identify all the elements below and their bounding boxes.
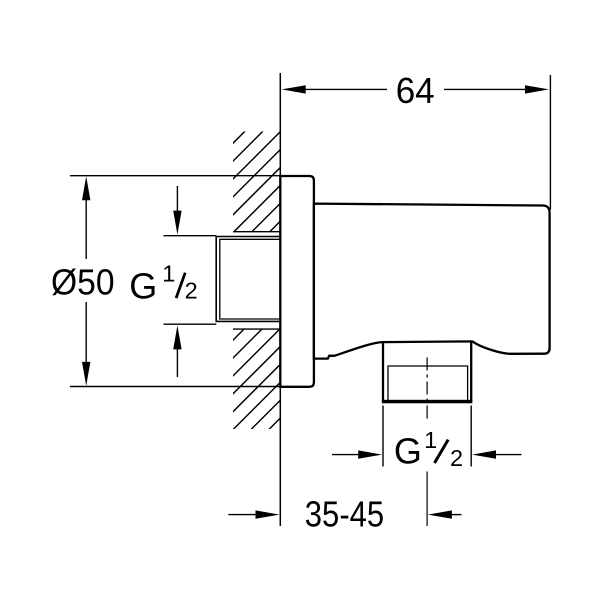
dim 64: left arrowhead xyxy=(282,85,306,93)
inlet thread G1/2: upper arrowhead (down) xyxy=(173,211,181,235)
wall hole bottom edge xyxy=(233,328,280,330)
outlet thread G1/2: right arrowhead (left) xyxy=(472,450,496,458)
inlet thread union inner (thread root) lines xyxy=(220,239,280,319)
inlet thread G1/2: upper extension stub xyxy=(164,235,217,237)
dim 64: right arrowhead xyxy=(525,85,549,93)
outlet thread G1/2: right extension line xyxy=(470,406,472,467)
svg-text:1: 1 xyxy=(424,427,437,453)
svg-text:Ø50: Ø50 xyxy=(51,262,115,303)
inlet thread G1/2: lower extension stub xyxy=(164,323,217,325)
outlet thread G1/2: left dim line xyxy=(332,454,360,456)
outlet thread G1/2: fraction slash xyxy=(435,440,449,463)
outlet nipple bottom bar xyxy=(382,400,473,404)
dim Ø50: top arrowhead xyxy=(82,176,90,200)
inlet thread G1/2: fraction slash xyxy=(176,273,185,298)
svg-text:2: 2 xyxy=(450,445,463,471)
svg-text:35-45: 35-45 xyxy=(305,494,384,535)
centerline extension to 35-45 dim xyxy=(426,472,428,527)
outlet centerline (dash-dot) xyxy=(426,358,428,423)
svg-text:G: G xyxy=(129,265,157,306)
dim Ø50: dimension line xyxy=(85,199,87,363)
svg-text:1: 1 xyxy=(162,260,175,286)
dim Ø50: bottom arrowhead xyxy=(82,362,90,386)
dim 35-45: left arrowhead (right) xyxy=(256,510,280,518)
svg-text:64: 64 xyxy=(396,70,435,111)
outlet nipple left edge xyxy=(382,342,384,401)
dim 35-45: right dim line xyxy=(450,514,462,516)
wall hatching xyxy=(139,127,375,435)
dim Ø50: top extension line xyxy=(70,175,280,177)
svg-text:2: 2 xyxy=(185,278,198,304)
outlet thread G1/2: right dim line xyxy=(494,454,522,456)
dim 64: dimension line xyxy=(304,88,526,90)
dim Ø50: bottom extension line xyxy=(70,386,280,388)
wall surface line xyxy=(279,73,281,526)
svg-text:G: G xyxy=(394,431,422,472)
outlet thread inner lines xyxy=(388,366,468,400)
rosette (wall flange) xyxy=(280,176,314,387)
inlet thread G1/2: upper pointer line xyxy=(176,186,178,213)
dim 35-45: left dim line xyxy=(228,514,257,516)
outlet thread G1/2: left extension line xyxy=(382,406,384,467)
outlet nipple right edge xyxy=(470,341,472,401)
body outline xyxy=(314,204,550,359)
inlet thread G1/2: lower pointer line xyxy=(176,348,178,377)
outlet thread G1/2: left arrowhead (right) xyxy=(358,450,382,458)
dim 35-45: right arrowhead (left) xyxy=(428,510,452,518)
dim 64: right extension line xyxy=(549,75,551,210)
inlet thread union (behind wall) outer outline xyxy=(216,237,280,322)
inlet thread G1/2: lower arrowhead (up) xyxy=(173,325,181,349)
wall hole top edge xyxy=(233,231,280,233)
